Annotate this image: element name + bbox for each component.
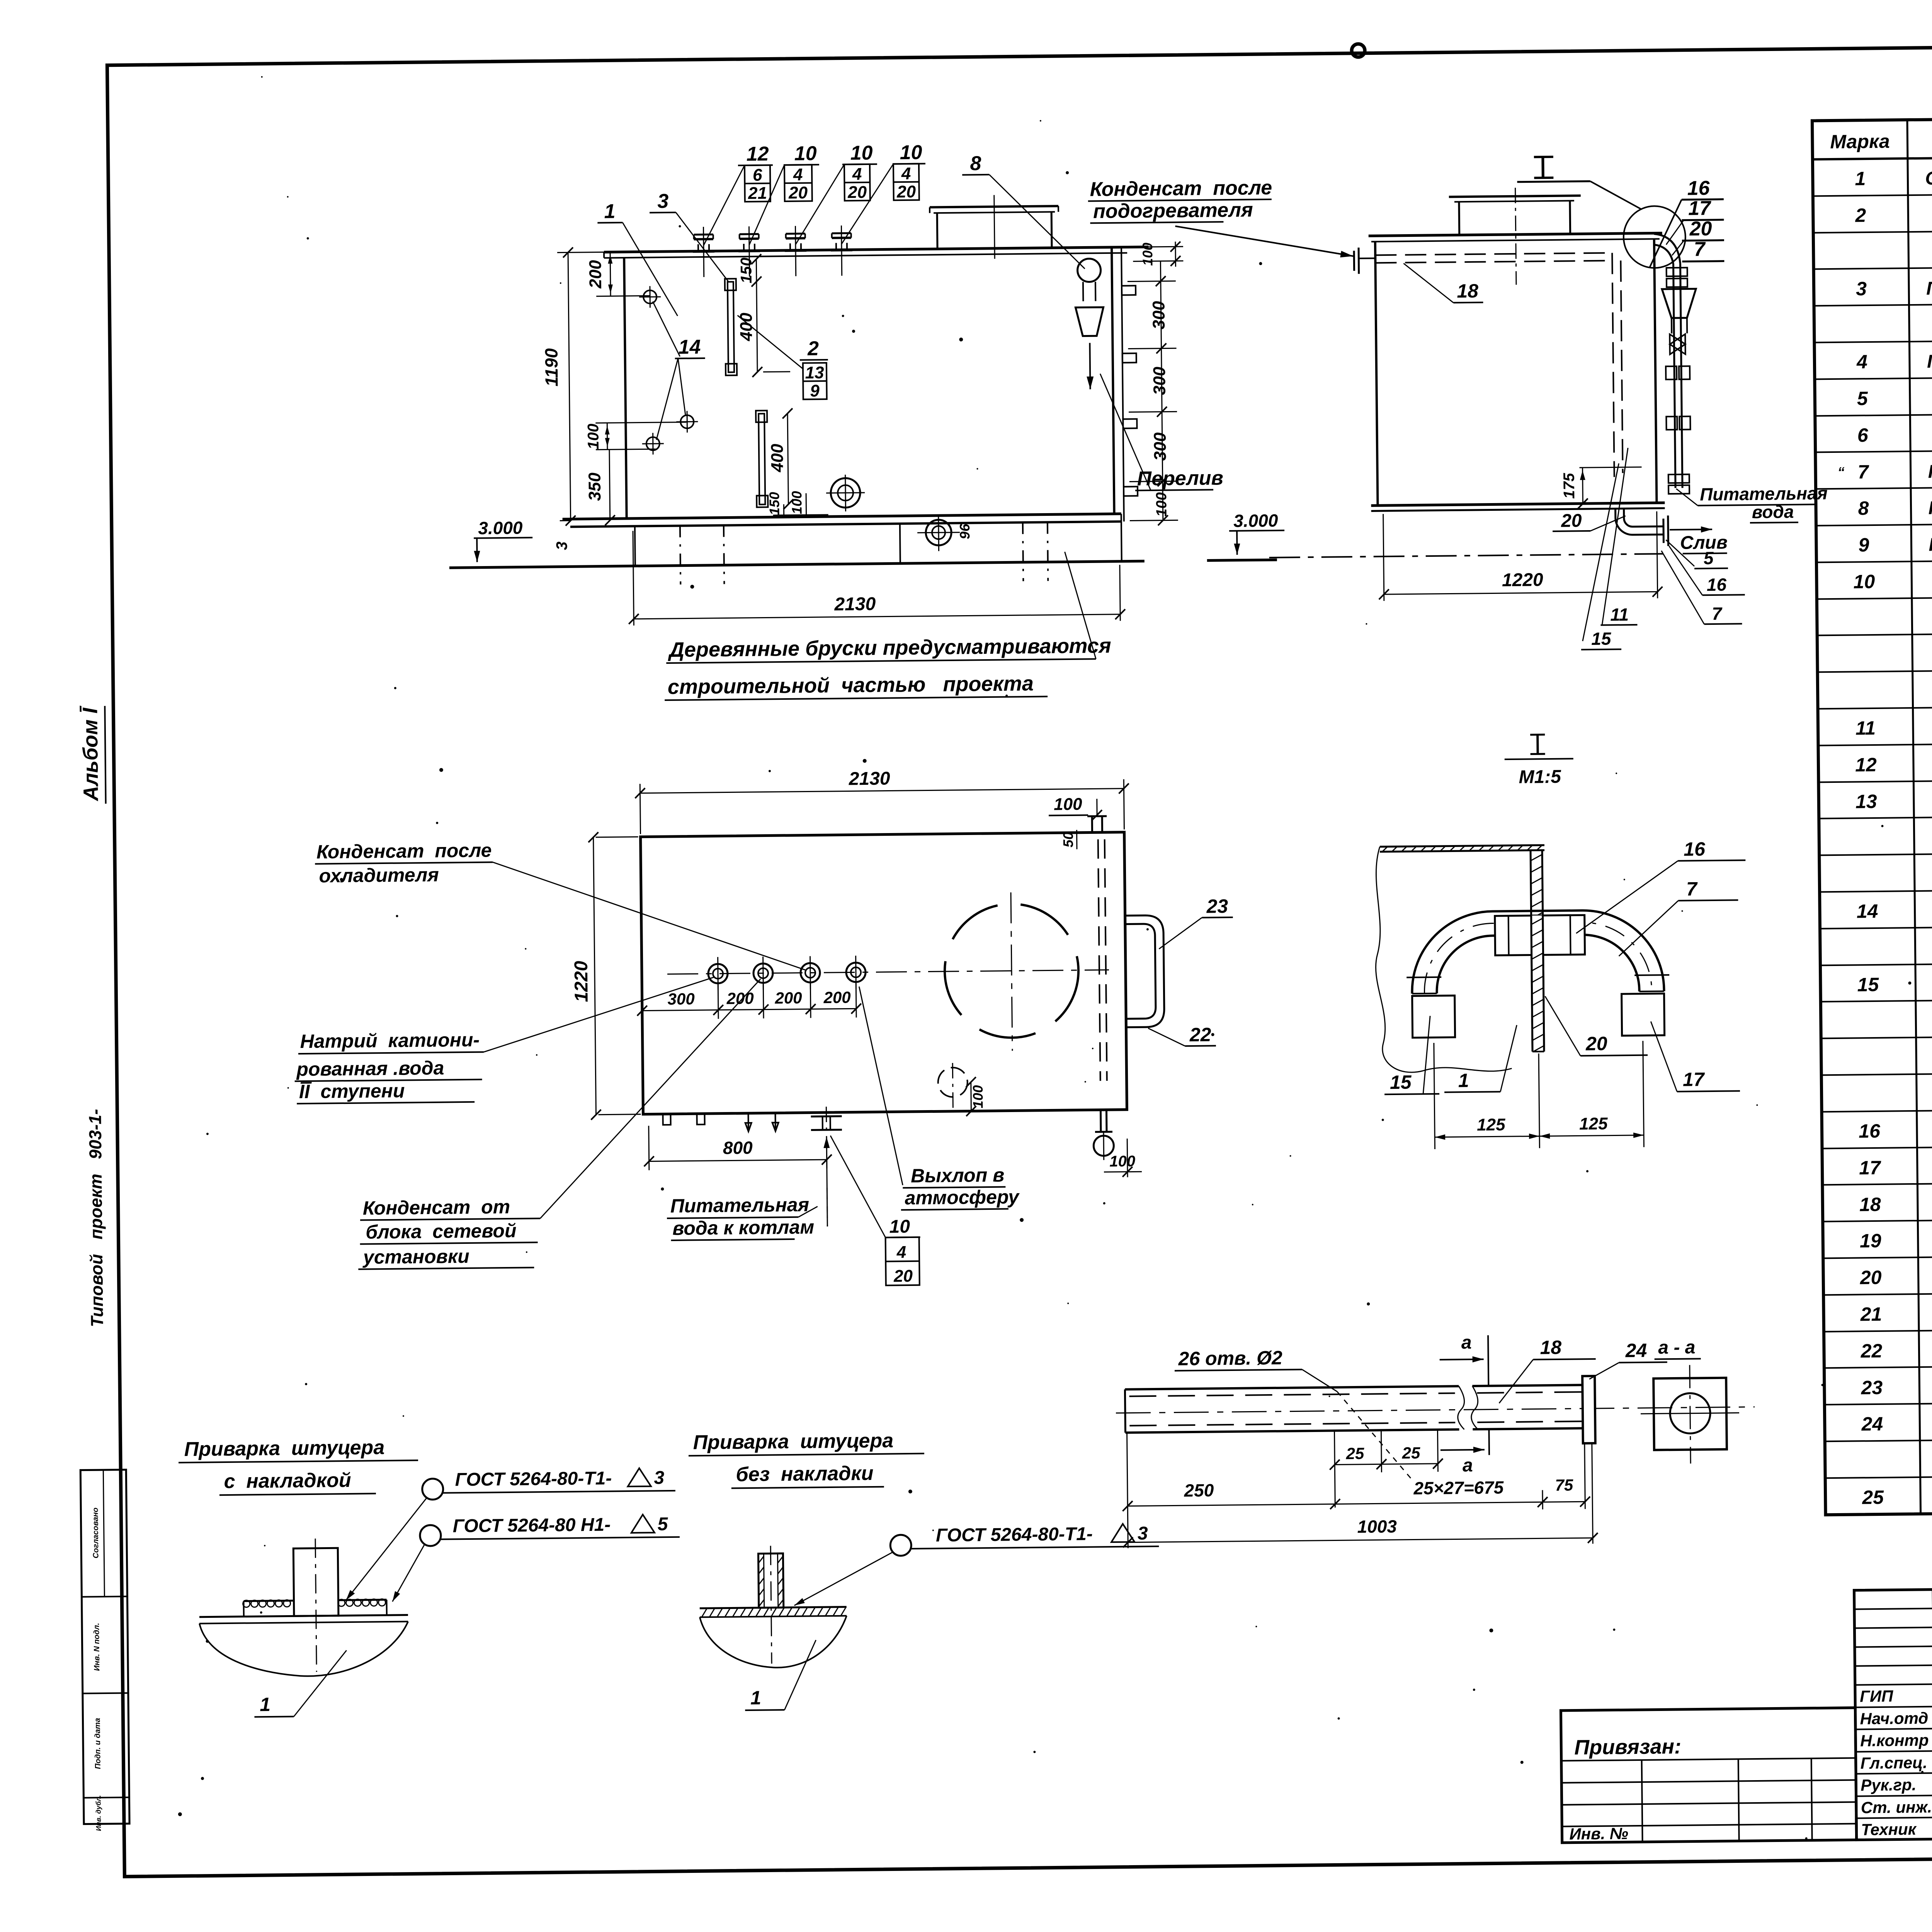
fitting circle below tank bottom [917, 514, 973, 551]
asterisk near spec row 7 [1837, 464, 1844, 480]
weld spec GOST 5264-80 N1-5 left detail [391, 1514, 680, 1602]
dimension chain 300x3 right side [1127, 261, 1178, 526]
svg-text:ГОСТ 12821-80: ГОСТ 12821-80 [1927, 350, 1932, 372]
flange fitting on lid 4 [692, 225, 852, 277]
svg-text:1220: 1220 [1502, 570, 1544, 590]
dimension 1220 side view [1378, 511, 1663, 601]
dimension 100 top right of front view [1133, 241, 1184, 267]
dimension 2130 bottom of front view [628, 526, 1125, 626]
svg-text:22: 22 [1860, 1340, 1882, 1362]
svg-text:75: 75 [1555, 1476, 1573, 1494]
svg-text:блока сетевой: блока сетевой [366, 1220, 517, 1243]
svg-text:7: 7 [1686, 878, 1698, 900]
svg-text:ОСТ34-42-394-77.: ОСТ34-42-394-77. [1925, 167, 1932, 189]
svg-text:16: 16 [1684, 838, 1706, 860]
svg-text:3: 3 [654, 1468, 665, 1488]
svg-text:6: 6 [1857, 424, 1869, 446]
svg-text:25: 25 [1401, 1444, 1420, 1462]
overflow fitting item 8 with funnel [1075, 259, 1104, 389]
drain fitting circle inside tank [826, 474, 865, 512]
dimension 125 125 detail [1434, 1041, 1644, 1149]
note Kondensat posle podogrevatelya [1088, 176, 1353, 260]
callout 12 with box 6/21 [702, 143, 774, 245]
svg-text:Альбом Ī: Альбом Ī [78, 706, 102, 802]
level gauge item 3 upper [725, 279, 737, 375]
svg-text:Марка: Марка [1830, 131, 1890, 153]
callout 10 with box 4/20 first [748, 142, 820, 245]
svg-text:21: 21 [748, 184, 767, 202]
hatch on tank top [930, 194, 1059, 259]
svg-text:11: 11 [1855, 717, 1876, 739]
svg-text:Приварка штуцера: Приварка штуцера [693, 1429, 893, 1454]
ground dash-dot line side view [1269, 554, 1663, 558]
svg-text:1: 1 [1458, 1070, 1469, 1091]
svg-text:300: 300 [1150, 366, 1169, 395]
svg-text:20: 20 [1585, 1033, 1607, 1055]
svg-text:ГОСТ 17378-77: ГОСТ 17378-77 [1928, 497, 1932, 518]
margin text Tipovoy proekt 903-1- (rotated) [85, 1109, 107, 1327]
svg-text:Инв. дубл.: Инв. дубл. [94, 1795, 102, 1831]
section arrows a-a on pipe [1439, 1332, 1490, 1476]
inlet flange left side [1354, 247, 1376, 274]
svg-text:150: 150 [766, 492, 782, 515]
svg-text:100: 100 [789, 491, 805, 514]
svg-text:175: 175 [1561, 473, 1578, 499]
svg-text:100: 100 [585, 423, 602, 449]
pipe end flange left item 15 [1412, 995, 1455, 1037]
ground line under front view [449, 560, 1277, 568]
inventory strip bottom left [80, 1470, 129, 1832]
svg-text:10: 10 [889, 1216, 910, 1237]
svg-text:200: 200 [586, 260, 605, 289]
section mark I above side view [1517, 156, 1641, 211]
perforated pipe item 18 drawing [1116, 1383, 1755, 1433]
svg-text:3.000: 3.000 [478, 518, 523, 538]
svg-text:16: 16 [1687, 177, 1710, 200]
svg-text:Конденсат после: Конденсат после [1090, 177, 1272, 201]
manhole dashed circle [944, 892, 1079, 1051]
svg-text:12: 12 [1855, 754, 1877, 776]
svg-text:9: 9 [1858, 534, 1869, 556]
svg-text:подогревателя: подогревателя [1093, 199, 1253, 223]
svg-text:ГОСТ 8446-74: ГОСТ 8446-74 [1926, 277, 1932, 299]
svg-text:200: 200 [823, 988, 851, 1007]
svg-text:1190: 1190 [541, 348, 561, 387]
svg-text:Инв. N подл.: Инв. N подл. [92, 1623, 101, 1671]
svg-text:ГОСТ 8954-75: ГОСТ 8954-75 [1929, 533, 1932, 555]
svg-text:100: 100 [1054, 795, 1082, 814]
svg-text:2: 2 [1855, 204, 1866, 226]
callout 7 side view [1662, 550, 1742, 624]
svg-text:5: 5 [1857, 388, 1869, 409]
svg-text:20: 20 [847, 183, 867, 202]
note Pitatelnaya voda k kotlam plan [666, 1137, 831, 1240]
svg-text:без накладки: без накладки [736, 1462, 874, 1486]
svg-text:19: 19 [1860, 1230, 1881, 1252]
drain elbow bottom [1616, 508, 1668, 546]
strap plates on right wall [1122, 286, 1138, 496]
section a-a view square with circle [1640, 1337, 1740, 1464]
hidden circle fitting with dim 100 inside plan [938, 1063, 986, 1116]
svg-text:Питательная: Питательная [670, 1194, 810, 1217]
hatched pipe over sleeve [1531, 915, 1544, 1052]
svg-text:100: 100 [1153, 492, 1170, 517]
valve fittings on external pipe [1665, 268, 1691, 494]
svg-text:Н.контр: Н.контр [1860, 1731, 1929, 1750]
stacked labels 16 17 20 7 top right [1648, 177, 1724, 268]
callout 2 with box 13/9 [738, 315, 828, 401]
svg-text:20: 20 [1860, 1267, 1882, 1289]
weld spec GOST 5264-80-T1-3 left detail [345, 1468, 676, 1600]
svg-text:96: 96 [957, 523, 973, 539]
dimension 175 [1561, 467, 1642, 509]
privyazan box [1561, 1708, 1856, 1843]
dimension 100 below lower gauge [773, 491, 828, 515]
funnel on external pipe [1662, 289, 1696, 333]
svg-text:24: 24 [1625, 1340, 1647, 1362]
svg-text:1: 1 [260, 1694, 270, 1715]
svg-text:350: 350 [585, 472, 605, 501]
svg-text:с накладкой: с накладкой [224, 1469, 351, 1493]
note wooden blocks two lines [663, 551, 1112, 700]
note 26 holes dia 2 [1174, 1346, 1411, 1481]
note Vyhlop v atmosferu [859, 985, 1020, 1210]
svg-text:4: 4 [1856, 351, 1867, 372]
svg-text:Техник: Техник [1861, 1820, 1917, 1838]
svg-text:8: 8 [1858, 497, 1869, 519]
svg-text:300: 300 [1151, 432, 1170, 461]
dimension chain left side of front view [540, 246, 687, 526]
note Kondensat posle ohladitelya [315, 837, 806, 975]
dimension 400 upper gauge [736, 281, 790, 377]
svg-text:1: 1 [750, 1687, 761, 1709]
elevation mark 3.000 left [474, 517, 571, 562]
fitting stub on plan top edge [1087, 816, 1107, 832]
feed water flanged stub on plan bottom [811, 1107, 842, 1150]
svg-text:3: 3 [1138, 1523, 1148, 1544]
svg-text:10: 10 [850, 142, 872, 165]
label 1 left weld detail [254, 1650, 347, 1717]
svg-text:Нач.отд: Нач.отд [1860, 1709, 1928, 1728]
svg-text:1220: 1220 [571, 961, 592, 1002]
label 24 pipe [1589, 1339, 1667, 1379]
svg-text:Гл.спец.: Гл.спец. [1861, 1753, 1928, 1772]
plan view centerline horizontal [667, 970, 1109, 974]
tank front view body [560, 247, 1151, 527]
svg-text:ГОСТ 17375-77: ГОСТ 17375-77 [1928, 460, 1932, 482]
svg-text:а - а: а - а [1658, 1337, 1696, 1358]
svg-text:25: 25 [1862, 1486, 1884, 1509]
svg-text:18: 18 [1540, 1337, 1561, 1359]
label 20 detail [1545, 995, 1648, 1056]
label 15 detail [1384, 1016, 1439, 1094]
svg-text:15: 15 [1591, 629, 1612, 649]
label 17 detail [1651, 1020, 1740, 1092]
dimension 250 675 75 pipe [1122, 1428, 1590, 1548]
svg-text:25×27=675: 25×27=675 [1413, 1477, 1504, 1498]
specification table header [1830, 118, 1932, 159]
svg-text:5: 5 [657, 1514, 668, 1534]
callout 11 side view [1599, 448, 1637, 625]
specification table rows [1849, 160, 1932, 1509]
title privarka shtutsera s nakladkoy [178, 1436, 418, 1495]
dimension 1003 pipe [1122, 1443, 1598, 1548]
svg-text:100: 100 [1139, 243, 1156, 266]
svg-text:ГОСТ 5264-80-Т1-: ГОСТ 5264-80-Т1- [936, 1524, 1093, 1546]
svg-text:Конденсат от: Конденсат от [363, 1196, 510, 1219]
svg-text:5: 5 [1704, 548, 1714, 568]
callout 22 plan [1148, 1024, 1216, 1046]
svg-text:4: 4 [852, 165, 862, 184]
svg-text:15: 15 [1390, 1071, 1412, 1094]
svg-text:20: 20 [1561, 510, 1582, 531]
svg-text:8: 8 [970, 152, 981, 175]
punch hole mark top center [1352, 44, 1365, 57]
stub pipe with overlay plate drawing [199, 1538, 408, 1677]
svg-text:1003: 1003 [1357, 1516, 1397, 1537]
U-pipe elbows item 7 detail [1406, 910, 1670, 994]
svg-text:вода: вода [1752, 502, 1794, 522]
label 18 pipe [1498, 1336, 1596, 1403]
svg-text:1: 1 [604, 200, 615, 223]
svg-text:3.000: 3.000 [1233, 510, 1278, 531]
dimension 800 plan bottom [644, 1124, 832, 1170]
svg-text:ГОСТ 5264-80-Т1-: ГОСТ 5264-80-Т1- [455, 1468, 612, 1490]
internal dashed pipe horizontal item 18 [1375, 253, 1610, 263]
svg-text:6: 6 [753, 166, 762, 185]
svg-text:3: 3 [553, 541, 570, 550]
svg-text:Перелив: Перелив [1137, 467, 1223, 490]
label 7 detail [1618, 878, 1739, 956]
svg-text:2130: 2130 [849, 768, 891, 789]
weld spec GOST 5264-80-T1-3 right detail [794, 1523, 1160, 1605]
svg-text:Выхлоп в: Выхлоп в [911, 1164, 1005, 1187]
svg-text:23: 23 [1861, 1377, 1883, 1399]
svg-text:1: 1 [1855, 168, 1866, 189]
pipe end flange right item 17 [1622, 993, 1665, 1036]
callout 10 with box 4/20 third [840, 141, 926, 244]
svg-text:а: а [1461, 1332, 1472, 1353]
svg-text:10: 10 [1853, 571, 1875, 593]
svg-text:18: 18 [1859, 1194, 1881, 1216]
callout 8 to overflow [962, 151, 1085, 270]
svg-text:М1:5: М1:5 [1519, 767, 1561, 787]
svg-text:7: 7 [1858, 461, 1870, 483]
dimension 150 upper gauge [738, 254, 762, 287]
svg-text:11: 11 [1610, 604, 1629, 624]
svg-text:3: 3 [1856, 278, 1867, 299]
svg-text:Подп. и дата: Подп. и дата [93, 1718, 102, 1769]
dimension chain 300 200 200 200 [637, 983, 861, 1020]
label 16 detail [1575, 838, 1746, 933]
svg-text:Инв. №: Инв. № [1569, 1824, 1628, 1843]
level gauge item 2 lower [756, 410, 768, 507]
svg-text:ĪĪ ступени: ĪĪ ступени [299, 1080, 405, 1103]
callout 14 with leaders [653, 301, 706, 440]
svg-text:Конденсат после: Конденсат после [316, 839, 492, 862]
svg-text:9: 9 [810, 381, 820, 400]
svg-text:строительной частью проекта: строительной частью проекта [668, 672, 1034, 699]
svg-text:7: 7 [1694, 238, 1706, 260]
callout 10 with box 4/20 second [794, 142, 878, 245]
side wall fitting circles item 14 [639, 286, 698, 454]
svg-text:200: 200 [726, 989, 754, 1008]
svg-text:400: 400 [768, 444, 787, 473]
callout 1 [597, 200, 678, 317]
Sliv drain note with arrow [1670, 526, 1728, 554]
svg-text:15: 15 [1857, 974, 1879, 996]
svg-text:Ст. инж.: Ст. инж. [1861, 1798, 1932, 1817]
label 18 with leader [1403, 263, 1483, 303]
handle hidden lines and bracket item 23 [1098, 839, 1165, 1081]
right bottom stub with circle on plan [1093, 1109, 1142, 1177]
callout 16 side view [1669, 545, 1745, 595]
specification table grid [1812, 112, 1932, 1515]
tank wall hatched strip detail [1380, 845, 1544, 852]
svg-text:200: 200 [774, 989, 802, 1007]
svg-text:рованная .вода: рованная .вода [296, 1057, 444, 1080]
internal dashed pipe vertical [1612, 253, 1623, 477]
svg-text:22: 22 [1189, 1024, 1211, 1046]
svg-text:10: 10 [900, 141, 922, 164]
sleeve item 16 detail center [1495, 915, 1585, 955]
svg-text:а: а [1463, 1455, 1473, 1476]
svg-text:125: 125 [1579, 1114, 1608, 1134]
note Kondensat ot bloka setevoy ustanovki [355, 979, 763, 1269]
svg-text:Согласовано: Согласовано [91, 1507, 100, 1558]
svg-text:17: 17 [1859, 1157, 1881, 1179]
tank plan view rectangle [641, 832, 1127, 1114]
svg-text:4: 4 [901, 164, 911, 183]
svg-text:50: 50 [1060, 832, 1076, 847]
tank side view body [1369, 233, 1665, 511]
dimension 100 plan top right [1048, 779, 1124, 850]
dimension 25 25 pipe [1329, 1430, 1443, 1508]
svg-text:150: 150 [738, 257, 755, 283]
svg-text:26 отв. Ø2: 26 отв. Ø2 [1178, 1347, 1282, 1370]
svg-text:Деревянные бруски предусматрив: Деревянные бруски предусматриваются [668, 634, 1111, 662]
dimension 150 below lower gauge [766, 492, 784, 515]
svg-text:Питательная: Питательная [1700, 483, 1828, 504]
svg-text:вода к котлам: вода к котлам [672, 1216, 814, 1239]
svg-text:21: 21 [1860, 1303, 1882, 1325]
svg-text:20: 20 [1689, 218, 1712, 240]
svg-text:Приварка штуцера: Приварка штуцера [184, 1436, 384, 1461]
external overflow pipe on right wall [1654, 234, 1682, 488]
svg-text:23: 23 [1206, 895, 1228, 917]
label 20 side view bottom [1553, 510, 1626, 531]
note Pereliv overflow [1100, 372, 1223, 491]
note Natriy kationirovannaya voda [294, 977, 715, 1104]
svg-text:25: 25 [1345, 1444, 1364, 1463]
svg-text:4: 4 [896, 1243, 906, 1262]
svg-text:13: 13 [805, 363, 824, 382]
svg-text:300: 300 [667, 990, 695, 1008]
svg-text:800: 800 [723, 1138, 753, 1158]
svg-text:17: 17 [1688, 197, 1711, 220]
callout 23 plan [1158, 895, 1233, 949]
svg-text:18: 18 [1457, 280, 1478, 302]
svg-text:12: 12 [746, 143, 769, 165]
svg-text:Типовой проект 903-1-: Типовой проект 903-1- [85, 1109, 107, 1327]
svg-text:охладителя: охладителя [319, 864, 439, 887]
svg-text:ГИП: ГИП [1860, 1687, 1893, 1706]
svg-text:14: 14 [678, 336, 701, 359]
dimension 1220 plan left [570, 832, 641, 1120]
vertical hatched pipe through wall [1531, 850, 1544, 1051]
svg-text:20: 20 [896, 182, 916, 201]
svg-text:10: 10 [794, 142, 816, 165]
svg-text:250: 250 [1184, 1480, 1214, 1500]
dimension 400 lower gauge [767, 408, 794, 510]
callout 10 4 20 plan [830, 1135, 921, 1286]
svg-text:20: 20 [788, 183, 808, 202]
section detail circle I [1623, 206, 1686, 269]
svg-text:Рук.гр.: Рук.гр. [1861, 1776, 1917, 1794]
section mark I with scale M1:5 [1504, 734, 1573, 787]
dimension 2130 plan view [635, 766, 1129, 834]
note Pitatelnaya voda [1676, 483, 1828, 524]
svg-text:“: “ [1837, 464, 1844, 480]
break wavy line left of detail [1374, 845, 1512, 1073]
svg-text:14: 14 [1857, 900, 1878, 922]
elevation mark 3.000 right [1229, 510, 1285, 555]
svg-text:17: 17 [1683, 1068, 1705, 1090]
svg-text:2130: 2130 [834, 594, 876, 615]
svg-text:4: 4 [793, 165, 803, 184]
label 1 detail [1444, 1025, 1517, 1092]
svg-text:ГОСТ 5264-80 Н1-: ГОСТ 5264-80 Н1- [452, 1514, 611, 1536]
title block signature grid [1854, 1587, 1932, 1840]
tank support blocks below bottom [635, 522, 1122, 585]
svg-text:13: 13 [1855, 791, 1877, 813]
svg-text:атмосферу: атмосферу [905, 1186, 1020, 1209]
svg-text:3: 3 [657, 190, 669, 213]
svg-text:100: 100 [970, 1085, 986, 1108]
small fittings on plan bottom edge [663, 1113, 778, 1132]
svg-text:установки: установки [362, 1245, 469, 1268]
margin text Album I (rotated) [78, 705, 105, 804]
hatch on side view top [1449, 187, 1582, 285]
svg-text:2: 2 [807, 337, 819, 360]
svg-text:7: 7 [1712, 604, 1723, 624]
nozzle circles on plan centerline [708, 956, 866, 990]
svg-text:16: 16 [1707, 575, 1727, 595]
title privarka shtutsera bez nakladki [688, 1429, 924, 1489]
svg-text:300: 300 [1149, 301, 1168, 329]
stub pipe without overlay drawing [699, 1545, 847, 1668]
callout 5 side view [1666, 539, 1728, 569]
svg-text:Натрий катиони-: Натрий катиони- [300, 1029, 480, 1052]
end flange plate item 24 [1582, 1376, 1595, 1443]
svg-text:Привязан:: Привязан: [1574, 1735, 1681, 1759]
callout 15 side view [1579, 463, 1621, 650]
svg-text:20: 20 [893, 1267, 913, 1286]
svg-text:125: 125 [1477, 1115, 1505, 1134]
svg-text:24: 24 [1861, 1413, 1883, 1435]
callout 3 [650, 189, 728, 282]
label 1 right weld detail [745, 1640, 817, 1710]
svg-text:16: 16 [1859, 1120, 1881, 1142]
